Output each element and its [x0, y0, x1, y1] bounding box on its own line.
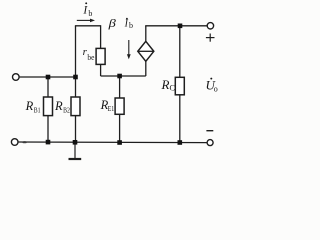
wire r_be bottom lead — [100, 64, 102, 76]
svg-text:E1: E1 — [108, 104, 115, 113]
current arrow Ib (rightward, top-left) — [77, 19, 95, 23]
wire input line (left, y=77) — [19, 76, 76, 78]
wire dependent-source top lead — [145, 26, 147, 42]
node: bus junction RE1 — [117, 140, 122, 145]
ink blob on bottom wire — [22, 141, 27, 143]
wire RC bottom lead — [179, 95, 181, 143]
wire RB1 bottom lead — [47, 116, 49, 143]
current arrow beta*Ib (downward) — [127, 40, 131, 59]
ground — [69, 142, 82, 159]
resistor RC — [175, 77, 184, 95]
svg-text:be: be — [87, 53, 94, 62]
node: bus junction RC — [178, 140, 183, 145]
wire RE1 top lead — [119, 76, 121, 98]
node: collector junction (top) — [178, 24, 183, 29]
svg-text:B1: B1 — [34, 105, 41, 114]
label Uo (output voltage) — [206, 78, 218, 94]
label RE1 — [100, 98, 115, 113]
terminal: output + (top right) — [207, 23, 213, 29]
node: bus junction RB1 — [46, 140, 51, 145]
wire top-right horizontal — [145, 25, 207, 27]
resistor RB1 — [44, 97, 53, 116]
terminal: input - (bottom left) — [11, 139, 18, 146]
resistor RE1 — [115, 98, 124, 114]
label RC — [161, 77, 175, 93]
svg-text:β: β — [107, 18, 116, 30]
label RB2 — [54, 99, 70, 114]
wire RB1 top lead — [47, 77, 49, 97]
node: emitter junction RE1 — [117, 74, 122, 79]
svg-text:b: b — [129, 21, 133, 30]
wire RC top lead — [179, 26, 181, 78]
svg-text:C: C — [170, 84, 175, 93]
terminal: output - (bottom right) — [207, 140, 213, 146]
wire emitter line — [101, 75, 146, 77]
svg-text:B2: B2 — [63, 105, 70, 114]
node: input junction RB2/base — [73, 75, 78, 80]
wire RE1 bottom lead — [119, 114, 121, 142]
resistor r_be — [96, 48, 105, 64]
wire r_be top lead — [100, 25, 102, 48]
label Ib (controlled source coefficient current) — [124, 18, 133, 30]
label RB1 — [25, 99, 41, 114]
svg-text:R: R — [161, 77, 170, 92]
svg-text:R: R — [25, 99, 34, 113]
wire ground bus (bottom) — [18, 141, 207, 144]
resistor RB2 — [71, 97, 80, 116]
controlled current source (diamond) — [138, 41, 154, 61]
svg-text:b: b — [88, 9, 92, 18]
svg-text:I: I — [124, 19, 129, 30]
polarity minus sign — [206, 130, 213, 132]
terminal: input + (top left) — [13, 74, 20, 81]
svg-text:o: o — [214, 85, 218, 94]
wire dependent-source bottom lead — [145, 61, 147, 76]
wire top-left horizontal — [75, 25, 101, 27]
label r_be — [83, 46, 95, 62]
node: input junction RB1 — [46, 75, 51, 80]
wire left vertical upper (base branch up) — [75, 26, 77, 97]
polarity plus sign — [206, 34, 215, 42]
label Ib (top-left current) — [82, 2, 92, 18]
node: bus junction RB2/ground — [73, 140, 78, 145]
svg-text:R: R — [54, 99, 63, 113]
wire RB2 bottom lead — [75, 116, 77, 143]
